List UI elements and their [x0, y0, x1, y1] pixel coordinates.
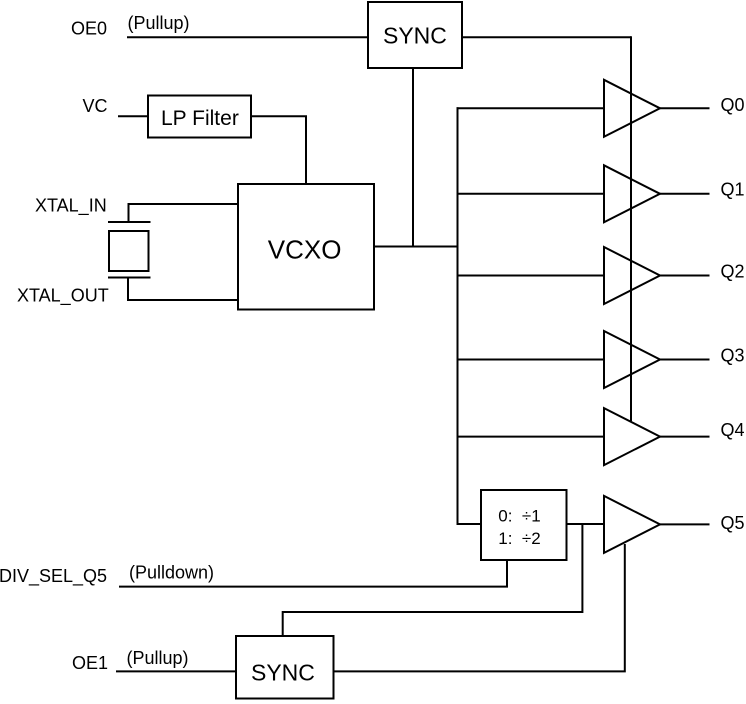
wire bus to divider [457, 523, 482, 525]
sync block U2 [236, 636, 334, 699]
wire Q4 output [660, 436, 710, 438]
crystal Y1 bottom plate [108, 277, 151, 279]
svg-text:VC: VC [83, 96, 108, 116]
svg-text:Q1: Q1 [721, 180, 745, 200]
wire Q3 branch [457, 359, 605, 361]
svg-text:XTAL_OUT: XTAL_OUT [17, 286, 109, 307]
buffer Q2 [604, 247, 660, 304]
svg-text:LP Filter: LP Filter [161, 107, 239, 130]
svg-text:Q4: Q4 [721, 420, 745, 440]
wire LP filter to VCXO [251, 116, 306, 184]
wire OE0 to SYNC [127, 36, 368, 38]
svg-text:(Pullup): (Pullup) [127, 648, 189, 668]
wire divider output to SYNC2 input [283, 523, 583, 636]
buffer Q0 [604, 80, 660, 137]
svg-text:OE0: OE0 [71, 19, 107, 39]
wire Q4 branch [457, 436, 605, 438]
LP filter block [148, 96, 251, 138]
crystal Y1 body [109, 231, 149, 271]
wire Q3 output [660, 359, 710, 361]
wire VC [118, 115, 148, 117]
wire SYNC2 output to Q5 enable [334, 544, 625, 671]
svg-text:Q2: Q2 [721, 262, 745, 282]
buffer Q1 [604, 165, 660, 222]
wire SYNC to VCXO output node [412, 68, 414, 247]
svg-text:(Pulldown): (Pulldown) [129, 563, 214, 583]
svg-text:SYNC: SYNC [383, 22, 447, 48]
divider block [481, 490, 567, 560]
svg-text:Q5: Q5 [721, 513, 745, 533]
wire DIV_SEL_Q5 [119, 560, 507, 587]
sync block U1 [368, 2, 462, 68]
svg-text:(Pullup): (Pullup) [128, 13, 190, 33]
wire SYNC output [462, 36, 631, 38]
wire Q5 output [660, 523, 710, 525]
wire Q1 branch [457, 193, 605, 195]
wire Q2 output [660, 275, 710, 277]
svg-text:Q0: Q0 [721, 95, 745, 115]
svg-text:DIV_SEL_Q5: DIV_SEL_Q5 [0, 566, 107, 587]
svg-text:SYNC: SYNC [251, 659, 315, 685]
svg-text:0: ÷1: 0: ÷1 [498, 507, 540, 526]
wire Q0 output [660, 107, 710, 109]
wire divider output [567, 523, 605, 525]
wire clock bus vertical [457, 107, 459, 524]
svg-text:XTAL_IN: XTAL_IN [35, 196, 107, 217]
crystal Y1 top plate [108, 221, 151, 223]
svg-text:Q3: Q3 [721, 346, 745, 366]
wire Q1 output [660, 193, 710, 195]
wire Q2 branch [457, 275, 605, 277]
buffer Q4 [604, 408, 660, 465]
wire XTAL_OUT [128, 278, 238, 301]
buffer Q5 [604, 496, 660, 553]
wire VCXO output [374, 246, 458, 248]
svg-text:VCXO: VCXO [268, 234, 342, 264]
buffer Q3 [604, 331, 660, 388]
VCXO block [238, 184, 374, 310]
svg-text:OE1: OE1 [72, 653, 108, 673]
wire Q0 branch [457, 107, 605, 109]
svg-text:1: ÷2: 1: ÷2 [498, 529, 540, 548]
wire OE1 [116, 670, 236, 672]
wire XTAL_IN [129, 204, 239, 222]
wire SYNC enable vertical bus [630, 36, 632, 421]
